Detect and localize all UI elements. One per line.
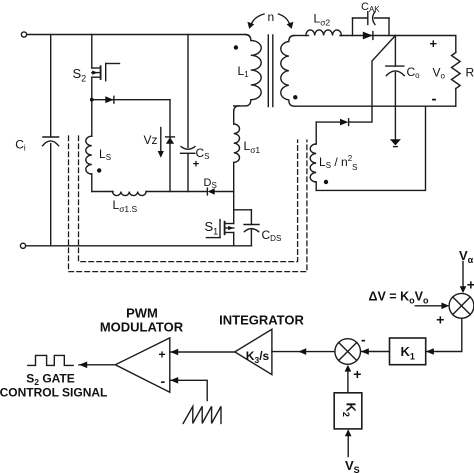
svg-text:S1: S1 (205, 219, 219, 237)
wire secondary top (294, 35, 308, 37)
wire (146, 191, 207, 193)
svg-text:Co: Co (407, 65, 421, 80)
wire output bottom rail (294, 105, 456, 107)
wire snubber return (316, 106, 425, 190)
svg-text:Vo: Vo (433, 66, 446, 81)
capacitor Cs (181, 35, 196, 192)
op-amp PWM comparator (115, 338, 170, 392)
svg-text:CDS: CDS (262, 228, 282, 243)
svg-text:PWM: PWM (126, 306, 158, 321)
svg-text:LS / n2S: LS / n2S (319, 154, 358, 172)
svg-text:L1: L1 (238, 64, 250, 79)
block K1 (390, 338, 426, 365)
inductor Ls (86, 136, 92, 174)
dot Ls/n2s polarity (324, 180, 328, 184)
summing junction upper (449, 293, 474, 318)
wire Vs input arrow (347, 436, 349, 457)
dot secondary polarity (293, 95, 297, 99)
diode output rectifier (363, 32, 373, 40)
wire reflected snubber diagonal (349, 36, 396, 123)
wire S1 drain (233, 192, 235, 224)
svg-text:K2: K2 (341, 403, 359, 417)
gate pulse waveform (28, 355, 73, 365)
svg-text:+: + (467, 277, 474, 293)
svg-text:Vz: Vz (144, 133, 158, 147)
svg-text:VS: VS (345, 458, 360, 474)
svg-text:-: - (361, 332, 366, 348)
transformer secondary (281, 36, 295, 107)
wire summer to integrator (272, 351, 335, 353)
svg-text:-: - (432, 91, 437, 108)
block K3/s integrator triangle (235, 329, 272, 374)
capacitor Cak loop (353, 12, 390, 36)
inductor Ls/n2s (310, 122, 316, 190)
capacitor Co (386, 36, 405, 107)
svg-text:CONTROL SIGNAL: CONTROL SIGNAL (0, 385, 107, 399)
wire sawtooth to - input (170, 380, 207, 400)
node junction S2-source (90, 98, 94, 102)
svg-text:Lσ1: Lσ1 (244, 139, 261, 155)
wire K1 to summer (361, 351, 390, 353)
transistor S1 (206, 220, 233, 238)
wire S1 source (233, 233, 235, 246)
wire pwm output (79, 364, 115, 366)
wire snubber bottom (91, 174, 93, 192)
ground (390, 106, 401, 146)
transformer core (267, 35, 269, 107)
resistor R load (452, 36, 461, 107)
svg-text:DS: DS (204, 177, 217, 190)
dot L1 polarity (234, 45, 238, 49)
svg-text:-: - (160, 373, 165, 389)
wire dV input arrow (415, 305, 441, 307)
inductor Lo2 (306, 30, 342, 36)
zener diode Vz (166, 137, 175, 144)
wire integrator to pwm (170, 351, 235, 353)
transistor S2 (92, 64, 120, 81)
block K2 (334, 393, 362, 429)
inductor Lo1.S (113, 192, 147, 196)
svg-text:K3/s: K3/s (246, 349, 270, 365)
svg-text:Ci: Ci (15, 137, 26, 152)
svg-text:LS: LS (99, 147, 111, 162)
svg-text:+: + (158, 348, 165, 362)
svg-text:Lσ2: Lσ2 (314, 12, 331, 28)
wire top rail (27, 34, 246, 36)
svg-text:+: + (193, 159, 199, 171)
wire S2 drain (91, 35, 93, 69)
svg-text:CAK: CAK (361, 1, 380, 14)
svg-text:K1: K1 (401, 344, 415, 362)
svg-text:+: + (353, 366, 361, 382)
dot Ls polarity (97, 168, 101, 172)
capacitor Cds (234, 210, 259, 246)
dashed box inner (79, 136, 298, 262)
diode Ds (207, 188, 233, 195)
diode reflected (316, 119, 348, 126)
wire K2 to summer (347, 371, 349, 392)
wire bottom rail (26, 245, 252, 247)
sawtooth waveform (183, 406, 221, 423)
svg-text:Vα: Vα (459, 248, 474, 265)
svg-text:INTEGRATOR: INTEGRATOR (219, 313, 304, 328)
wire upper summer to K1 (426, 318, 462, 351)
summing junction middle (335, 339, 361, 365)
svg-text:MODULATOR: MODULATOR (100, 319, 184, 334)
svg-text:+: + (430, 36, 438, 51)
svg-text:R: R (466, 66, 474, 80)
svg-text:+: + (436, 312, 444, 328)
inductor Lo1 (234, 106, 240, 192)
capacitor Ci (43, 35, 59, 246)
input terminal bottom (20, 243, 25, 248)
svg-text:ΔV = KoVo: ΔV = KoVo (369, 290, 429, 306)
label Vz with arrow (144, 128, 164, 158)
diode snubber top (92, 96, 170, 103)
transformer primary L1 (234, 35, 262, 106)
svg-text:n: n (268, 10, 275, 24)
label n with turns arrows (247, 10, 293, 29)
wire (340, 35, 456, 37)
wire zener branch (169, 100, 171, 192)
wire S2 source (91, 77, 93, 136)
input terminal top (21, 32, 26, 37)
wire Va input arrow (462, 262, 464, 287)
svg-text:S2: S2 (73, 66, 87, 84)
svg-text:Lσ1.S: Lσ1.S (113, 198, 138, 214)
dashed box outer (69, 136, 307, 272)
